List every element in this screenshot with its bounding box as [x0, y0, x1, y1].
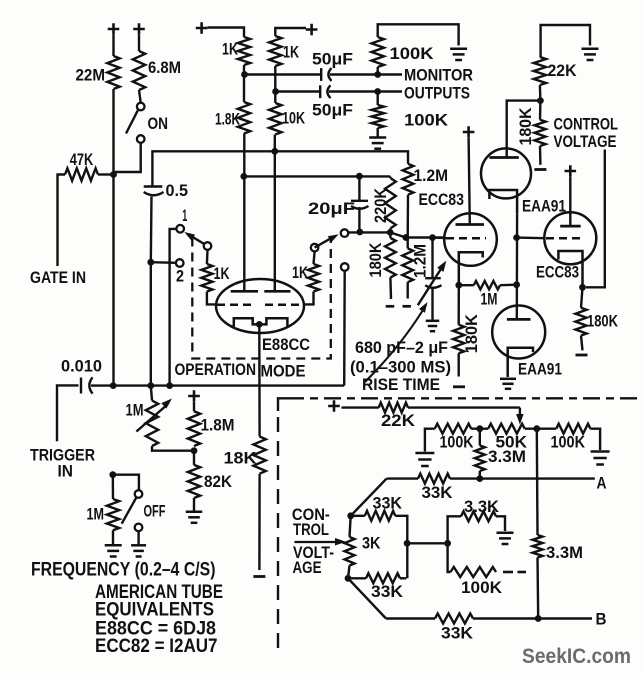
svg-text:1M: 1M	[126, 401, 144, 420]
plate right E88CC	[264, 290, 290, 293]
wire diagonal to control node	[351, 479, 387, 516]
svg-text:3K: 3K	[362, 534, 381, 553]
ground	[582, 48, 599, 51]
svg-text:1K: 1K	[292, 263, 309, 282]
wire plate supply	[469, 138, 470, 225]
resistor 100K (bottom)	[451, 567, 497, 577]
plate left E88CC	[231, 290, 258, 293]
node junction 47K/22M	[110, 171, 117, 178]
wire to contact 2	[151, 261, 176, 264]
ground	[415, 452, 434, 455]
svg-text:RISE TIME: RISE TIME	[362, 375, 440, 394]
minus terminal	[576, 354, 588, 357]
wire down to trigger line	[150, 262, 152, 385]
wire vertical down to 100K	[448, 543, 451, 572]
switch pole right	[311, 244, 319, 252]
node control voltage	[347, 512, 354, 519]
svg-text:100K: 100K	[461, 578, 503, 597]
wire 1M-var to 1.8M node	[152, 446, 194, 451]
wire pole to 1K	[206, 250, 209, 264]
svg-text:47K: 47K	[70, 150, 94, 169]
svg-text:EAA91: EAA91	[522, 197, 566, 216]
svg-text:3.3K: 3.3K	[464, 497, 500, 516]
wire 1.2M to grid node	[407, 195, 410, 238]
node 1K/10K junction	[272, 88, 279, 95]
svg-text:GATE IN: GATE IN	[30, 268, 86, 287]
svg-text:3.3M: 3.3M	[546, 543, 583, 562]
wire switch row to grid (jog)	[348, 232, 445, 237]
cathode ECC83 right	[558, 251, 582, 287]
switch OFF contact bottom	[135, 524, 143, 532]
resistor 180K (right)	[581, 287, 583, 307]
svg-text:EQUIVALENTS: EQUIVALENTS	[95, 600, 214, 621]
wire to OFF switch	[113, 475, 139, 491]
node 220K bottom	[387, 229, 394, 236]
svg-text:A: A	[597, 474, 607, 493]
wire grid to node	[433, 236, 447, 239]
wire to ground	[137, 531, 139, 544]
grid dashed ECC83 left	[446, 237, 486, 240]
ground	[105, 544, 122, 547]
svg-text:220K: 220K	[371, 187, 390, 223]
node A-row	[476, 475, 483, 482]
svg-text:TROL: TROL	[293, 520, 329, 539]
svg-text:50μF: 50μF	[312, 50, 353, 69]
resistor 180K (left)	[458, 285, 460, 325]
resistor 1K (right plate load)	[269, 36, 281, 66]
node	[374, 88, 381, 95]
svg-text:100K: 100K	[551, 433, 586, 452]
tube ECC83 (right)	[544, 212, 596, 264]
variable capacitor 680pF-2uF	[431, 238, 433, 277]
svg-text:100K: 100K	[404, 111, 449, 130]
node 22K/180K	[537, 97, 544, 104]
svg-text:180K: 180K	[366, 242, 385, 278]
resistor 1.2M (upper)	[403, 164, 414, 195]
svg-text:ECC82 = I2AU7: ECC82 = I2AU7	[95, 636, 218, 657]
wire cathode down (mid bus)	[516, 213, 519, 319]
ground	[131, 544, 146, 547]
node variable cap	[429, 234, 436, 241]
tube EAA91 (top diode)	[481, 148, 531, 198]
resistor 100K upper (monitor)	[374, 71, 381, 78]
svg-text:1M: 1M	[87, 505, 105, 524]
node	[476, 425, 483, 432]
ground	[497, 532, 514, 535]
wire to 50K wiper arrow	[408, 406, 520, 408]
wire pole to 1K right	[314, 251, 315, 264]
wire MONITOR output	[378, 73, 402, 75]
svg-text:180K: 180K	[462, 314, 481, 354]
wire 0.5 to node2	[150, 197, 153, 263]
switch blade right	[315, 237, 334, 248]
resistor 100K (divider right)	[556, 424, 590, 434]
resistor 33K (second)	[351, 515, 365, 517]
wire trigger-in	[57, 385, 79, 441]
power + (22K lower)	[328, 400, 340, 412]
node B/3.3M	[535, 615, 542, 622]
resistor 100K lower (monitor)	[377, 92, 379, 106]
svg-text:50μF: 50μF	[312, 101, 353, 120]
svg-text:(0.1–300 MS): (0.1–300 MS)	[350, 358, 451, 377]
operation mode dashed box	[192, 238, 330, 359]
wire vertical to 3.3K	[448, 516, 461, 543]
resistor 180K (control)	[539, 101, 542, 120]
wire to 50uF lower	[276, 90, 321, 92]
grid dashed E88CC	[217, 304, 254, 307]
power + (ECC83 left)	[463, 126, 475, 138]
node 3K bottom	[345, 575, 352, 582]
tube EAA91 (bottom diode)	[492, 306, 545, 359]
svg-text:680 pF–2 μF: 680 pF–2 μF	[355, 338, 448, 357]
wire A row	[387, 477, 418, 479]
svg-text:B: B	[596, 610, 607, 629]
switch pole left	[204, 242, 212, 250]
wire contact1 to trigger line	[170, 229, 177, 386]
node cathode junction	[256, 321, 263, 328]
svg-text:2: 2	[176, 267, 184, 286]
svg-text:18K: 18K	[224, 449, 258, 468]
wire cathode down to 18K	[258, 324, 261, 436]
svg-text:CONTROL: CONTROL	[554, 115, 619, 134]
wire contact2 down to trigger line	[343, 271, 346, 386]
minus terminal	[453, 385, 465, 388]
node	[533, 425, 540, 432]
svg-text:22K: 22K	[381, 411, 416, 430]
resistor 18K	[253, 437, 265, 474]
svg-text:1M: 1M	[481, 290, 498, 309]
svg-text:6.8M: 6.8M	[148, 58, 181, 77]
resistor 6.8M	[133, 51, 145, 90]
switch contact 2 (left)	[176, 259, 184, 267]
svg-text:OFF: OFF	[144, 502, 166, 521]
ground	[186, 511, 203, 514]
wire	[243, 65, 245, 75]
wire diagonal to B row	[348, 578, 386, 618]
wire	[112, 35, 114, 56]
svg-text:MONITOR: MONITOR	[404, 66, 473, 85]
svg-text:AGE: AGE	[293, 558, 322, 577]
cathode EAA91 top	[489, 190, 517, 213]
switch ON blade	[126, 110, 138, 134]
node contact1 wire	[166, 382, 173, 389]
svg-text:22K: 22K	[548, 61, 578, 80]
svg-text:SeekIC.com: SeekIC.com	[522, 645, 631, 668]
svg-text:3.3M: 3.3M	[488, 447, 526, 466]
resistor 1K (right grid)	[308, 264, 319, 292]
switch blade left	[188, 234, 208, 246]
wire corner down	[395, 516, 407, 579]
cathode ECC83 left	[459, 252, 483, 284]
switch ON contact top	[137, 103, 145, 111]
trigger wire	[91, 384, 344, 386]
resistor 1M (coupling)	[459, 284, 474, 286]
wire	[208, 28, 245, 38]
resistor 22M	[107, 56, 119, 89]
svg-text:0.010: 0.010	[61, 357, 102, 376]
node mid 2	[444, 540, 451, 547]
wire control voltage	[586, 150, 605, 288]
ground	[369, 136, 386, 139]
svg-text:1K: 1K	[283, 43, 300, 62]
svg-text:1.8K: 1.8K	[215, 110, 240, 129]
resistor 1M (fixed)	[112, 475, 115, 499]
pointer arrow to rise-time cap	[365, 305, 426, 382]
wire 22M to junction	[112, 89, 114, 176]
plate ECC83 right	[560, 225, 581, 228]
resistor 22K (top right)	[541, 25, 590, 57]
svg-text:20μF: 20μF	[308, 199, 355, 218]
dash below 1.2M	[403, 305, 411, 308]
ground	[591, 450, 610, 453]
resistor 33K (third)	[348, 577, 366, 579]
power rail + (1K right)	[306, 24, 318, 36]
resistor 33K (B row)	[435, 614, 473, 624]
grid dashed ECC83 right	[546, 237, 584, 240]
svg-text:IN: IN	[58, 462, 74, 481]
cathode left E88CC	[234, 318, 259, 326]
wire to ground	[496, 516, 505, 531]
svg-text:EAA91: EAA91	[518, 360, 562, 379]
power rail + (22M)	[108, 23, 120, 35]
wire 1K to grid	[303, 292, 314, 305]
svg-text:0.5: 0.5	[166, 181, 189, 200]
tube E88CC (dual triode)	[216, 279, 304, 333]
svg-text:82K: 82K	[204, 472, 233, 491]
resistor 1K (left plate load)	[238, 37, 250, 65]
resistor 1.8K	[238, 102, 250, 134]
node grid row	[403, 234, 410, 241]
minus terminal 18K	[253, 575, 265, 578]
node 1K/1.8K junction	[241, 71, 248, 78]
node 1M junction	[513, 281, 520, 288]
svg-text:10K: 10K	[282, 109, 306, 128]
svg-text:ECC83: ECC83	[419, 190, 465, 209]
wire	[243, 75, 245, 103]
svg-text:ECC83: ECC83	[536, 263, 579, 282]
svg-text:1K: 1K	[214, 264, 231, 283]
section divider dashed	[278, 398, 287, 411]
svg-text:33K: 33K	[422, 483, 454, 502]
node OFF branch	[109, 471, 116, 478]
svg-text:E88CC: E88CC	[262, 335, 310, 354]
wire switch to junction	[114, 143, 141, 172]
svg-text:1.2M: 1.2M	[414, 166, 449, 185]
wire to EAA91 plate	[507, 101, 541, 157]
wire GATE IN	[58, 175, 66, 267]
wire between verticals	[407, 542, 448, 544]
dash below 180K	[386, 305, 395, 308]
svg-text:VOLTAGE: VOLTAGE	[554, 132, 617, 151]
cathode EAA91 bottom	[508, 348, 533, 377]
node mid	[404, 540, 411, 547]
svg-text:22M: 22M	[76, 66, 106, 85]
ground	[450, 48, 467, 51]
cathode right E88CC	[259, 318, 287, 326]
resistor 22K (lower)	[342, 406, 379, 408]
switch contact 1 (right)	[341, 229, 349, 237]
ground	[500, 378, 516, 381]
svg-text:180K: 180K	[587, 312, 619, 331]
plate EAA91 top	[489, 156, 518, 159]
wire OUTPUTS output	[378, 90, 402, 92]
wire 0.5-cap rail (y151)	[152, 151, 408, 185]
wire 1K to grid	[207, 292, 217, 305]
node cathode	[455, 282, 462, 289]
node 10K/0.5 wire junction	[271, 148, 278, 155]
svg-text:FREQUENCY (0.2–4 C/S): FREQUENCY (0.2–4 C/S)	[31, 560, 216, 581]
switch contact 2 (right)	[341, 263, 349, 271]
plate ECC83 left	[456, 223, 485, 226]
resistor 220K	[389, 176, 391, 178]
capacitor 50uF lower	[319, 85, 321, 98]
wire	[275, 28, 306, 36]
potentiometer 3K	[350, 516, 351, 537]
power rail + (6.8M)	[133, 23, 145, 35]
power + (ECC83 right)	[565, 165, 577, 177]
node 20uF bottom	[356, 229, 363, 236]
main vertical wire down	[112, 176, 114, 386]
node 1.8M/82K	[191, 447, 198, 454]
resistor 3.3M (left)	[479, 429, 481, 446]
resistor 1K (left grid)	[201, 264, 212, 292]
plate EAA91 bottom	[507, 318, 531, 321]
resistor 1.2M (lower, rotated label)	[402, 248, 413, 282]
svg-text:180K: 180K	[516, 107, 535, 146]
switch OFF blade	[122, 498, 137, 524]
wire	[569, 177, 571, 226]
svg-text:1: 1	[182, 206, 187, 225]
minus terminal	[534, 168, 546, 171]
wire B row	[386, 617, 435, 619]
dashes to 3.3M line	[503, 571, 513, 574]
switch ON contact bottom	[137, 135, 145, 143]
power + (1.8M)	[188, 390, 200, 402]
wire to ground	[378, 24, 459, 45]
svg-text:33K: 33K	[441, 624, 474, 643]
node grid junction	[513, 234, 520, 241]
node 20uF junction	[356, 173, 363, 180]
node cathode right	[579, 284, 586, 291]
resistor 33K (A row)	[418, 474, 450, 484]
node main line	[110, 382, 117, 389]
wire	[138, 35, 140, 51]
svg-text:33K: 33K	[373, 494, 403, 513]
wire	[274, 66, 276, 92]
switch OFF contact top	[135, 490, 143, 498]
svg-text:1K: 1K	[222, 40, 239, 59]
resistor 3.3K	[461, 511, 496, 521]
node 1M-var	[147, 382, 154, 389]
wire to 50uF upper	[245, 73, 322, 75]
power rail + (1K left)	[196, 22, 208, 34]
arrow through variable cap	[418, 267, 443, 306]
capacitor 0.5	[144, 185, 163, 187]
ground	[426, 320, 440, 323]
wire 10K to plate (E88CC right)	[274, 135, 276, 292]
resistor 10K	[274, 92, 276, 104]
arrow control voltage to 3K	[295, 541, 338, 543]
svg-text:OUTPUTS: OUTPUTS	[404, 84, 470, 103]
resistor 3.3M (right)	[536, 429, 539, 535]
resistor 82K	[193, 451, 195, 465]
capacitor 0.010	[80, 378, 82, 394]
node 1.8K/20uF wire	[240, 173, 247, 180]
potentiometer 50K	[471, 428, 488, 430]
svg-text:1.8M: 1.8M	[201, 416, 235, 435]
resistor 180K (below 220K)	[385, 238, 396, 277]
svg-text:ON: ON	[148, 114, 169, 133]
svg-text:OPERATION: OPERATION	[175, 360, 257, 379]
resistor 1.8M	[193, 402, 195, 412]
svg-text:100K: 100K	[390, 44, 435, 63]
wire 1.8K to plate (E88CC left)	[243, 134, 245, 292]
svg-text:100K: 100K	[440, 433, 475, 452]
node position-2 wire	[147, 259, 154, 266]
wire to ON switch	[139, 90, 141, 103]
wire 1.8K node to 20uF/220K (y176)	[244, 175, 390, 177]
wire grid right ECC83	[517, 236, 545, 239]
svg-text:MODE: MODE	[261, 362, 306, 381]
resistor 100K (divider left)	[425, 429, 435, 452]
svg-text:33K: 33K	[371, 582, 404, 601]
tube ECC83 (left)	[444, 213, 497, 266]
svg-text:1.2M: 1.2M	[411, 244, 430, 278]
